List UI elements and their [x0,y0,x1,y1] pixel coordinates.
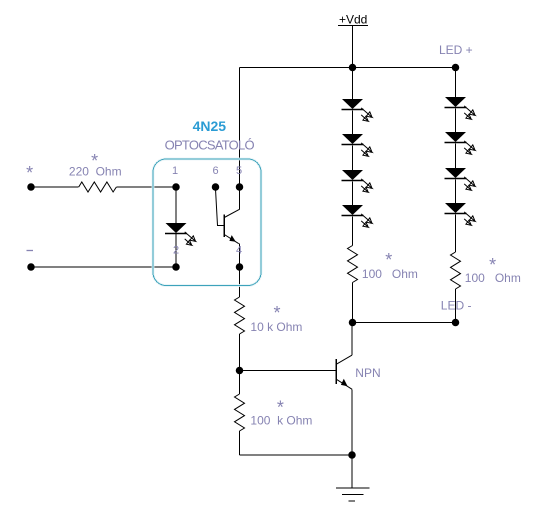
svg-text:NPN: NPN [355,366,380,380]
svg-text:LED -: LED - [441,299,472,313]
svg-text:*: * [277,398,284,418]
svg-text:4: 4 [236,245,242,257]
svg-text:OPTOCSATOLÓ: OPTOCSATOLÓ [165,137,255,152]
svg-text:1: 1 [172,165,178,177]
svg-text:*: * [489,255,496,275]
svg-text:2: 2 [173,245,179,257]
svg-text:6: 6 [213,165,219,177]
svg-text:*: * [91,151,98,171]
svg-text:LED +: LED + [439,43,473,57]
svg-text:*: * [26,163,33,183]
svg-text:+Vdd: +Vdd [339,13,367,27]
svg-text:*: * [274,303,281,323]
svg-text:4N25: 4N25 [193,118,227,134]
svg-text:*: * [385,250,392,270]
svg-text:5: 5 [236,165,242,177]
